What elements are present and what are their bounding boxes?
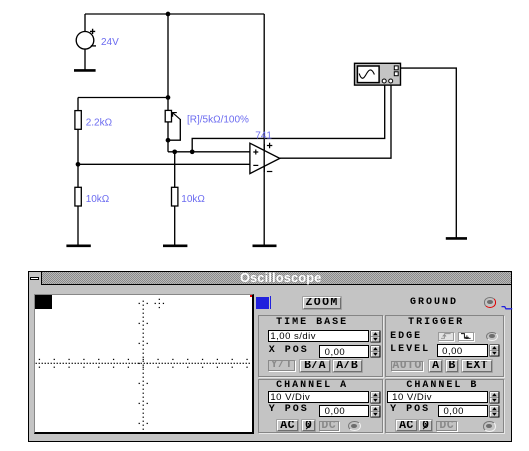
wire R1 bottom to node [77, 129, 79, 164]
wire inverting input [78, 163, 250, 165]
resistor R3 10k body [75, 187, 81, 206]
wire R3 bottom [77, 206, 79, 245]
wire source bottom [84, 49, 86, 69]
battery V1 24V [76, 29, 96, 49]
wire R4 bottom [174, 206, 176, 245]
oscilloscope instrument XSC1 [355, 63, 401, 85]
wire node to scope channel A [192, 84, 385, 152]
junction node scope tap [190, 149, 195, 154]
wire op-amp output to scope channel B [280, 84, 392, 159]
junction node pot wiper [166, 138, 171, 143]
op-amp vee minus mark [267, 171, 272, 173]
resistor R1 2.2k body [75, 111, 81, 130]
wire pot bottom [167, 122, 169, 152]
svg-text:2.2kΩ: 2.2kΩ [86, 117, 113, 128]
svg-text:741: 741 [255, 130, 272, 141]
ground GND3 (R4) [163, 245, 187, 248]
wire top rail [85, 13, 264, 15]
op-amp input minus mark [253, 164, 258, 166]
op-amp U1 741 [250, 143, 280, 173]
ground GND1 (source) [74, 69, 96, 72]
potentiometer wiper arrow [173, 113, 181, 120]
resistor R4 10k body [172, 187, 178, 206]
wire R4 top [174, 152, 176, 188]
junction node R4 top [172, 149, 177, 154]
junction node rail/pot [166, 12, 171, 17]
wire non-inverting input [168, 151, 250, 153]
wire R3 top [77, 164, 79, 187]
wire scope ground terminal [401, 68, 457, 238]
svg-text:[R]/5kΩ/100%: [R]/5kΩ/100% [187, 115, 249, 126]
op-amp vcc plus mark [267, 143, 272, 148]
op-amp power wire through body [263, 144, 265, 172]
junction node inverting input [76, 162, 81, 167]
svg-text:24V: 24V [101, 37, 119, 48]
op-amp input plus mark [253, 150, 258, 155]
wire source top [84, 14, 86, 32]
wire R1 top [77, 98, 79, 111]
wire rail to potentiometer [167, 14, 169, 110]
svg-text:10kΩ: 10kΩ [181, 194, 205, 205]
wire rail to R1 branch [78, 97, 168, 99]
wire op-amp power vertical [263, 14, 265, 245]
ground GND2 (R3) [66, 245, 90, 248]
svg-text:10kΩ: 10kΩ [86, 194, 110, 205]
potentiometer R2 body [165, 110, 171, 122]
junction node rail/R1 [166, 95, 171, 100]
ground GND4 (op-amp) [253, 245, 277, 248]
wire pot wiper loop [168, 119, 180, 140]
ground GND5 (scope) [446, 237, 467, 240]
